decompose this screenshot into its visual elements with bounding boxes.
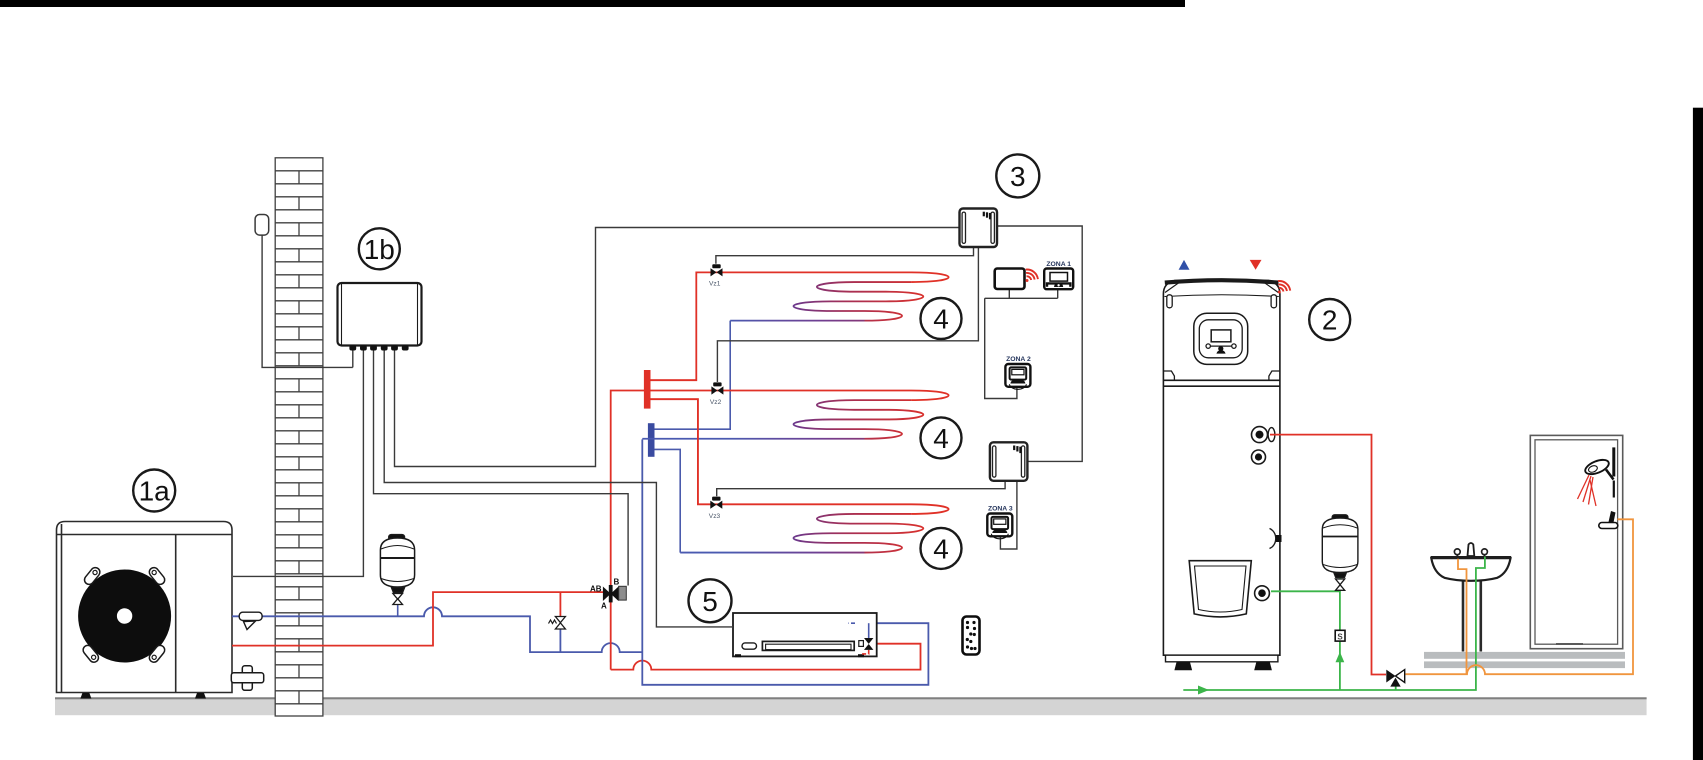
ZONA 2 thermostat <box>1005 364 1030 387</box>
zone valve Vz1 <box>711 264 723 276</box>
wire box3 to right loop down to receiver 2 <box>997 226 1082 461</box>
floor heating coil zone 2 serpentine <box>794 400 924 439</box>
wire 1b to fan coil <box>384 351 733 627</box>
red manifold stub to zone 1 <box>650 379 696 381</box>
remote control <box>963 617 980 655</box>
svg-text:Vz1: Vz1 <box>709 281 721 288</box>
shower mixer fitting <box>1599 523 1618 529</box>
shower head <box>1583 457 1611 477</box>
outdoor temperature sensor <box>255 215 269 236</box>
thermostatic mixing valve <box>1395 684 1397 690</box>
fan mounting bracket <box>147 566 166 587</box>
wire harness ZONA1 group <box>985 289 1058 398</box>
fan coil slot grille <box>762 641 854 650</box>
1b connection terminals <box>349 345 408 350</box>
fan mounting bracket <box>81 644 100 665</box>
svg-text:2: 2 <box>1322 305 1338 336</box>
top black bar <box>0 0 1185 7</box>
differential bypass valve blue stub <box>559 629 561 653</box>
zone valve Vz3 <box>710 497 722 509</box>
brick wall <box>275 158 323 716</box>
wireless control unit 3 <box>960 209 998 248</box>
green branch to tank <box>1271 591 1340 690</box>
wire receiver2 to zone valve Vz3 <box>717 481 1005 497</box>
svg-text:Vz2: Vz2 <box>710 399 722 406</box>
tank handhole flange <box>1189 561 1251 617</box>
blue riser from manifold down to fan-coil return <box>642 439 928 684</box>
svg-text:1a: 1a <box>139 476 171 507</box>
label circle 2 <box>1309 299 1350 340</box>
zone valve Vz2 <box>711 382 723 394</box>
wire receiver2 to ZONA3 <box>1000 481 1017 550</box>
orange branch to sink <box>1458 559 1467 675</box>
label circle 4 <box>921 298 962 339</box>
3-way diverter valve AB/A/B <box>603 585 619 602</box>
DHW heat pump tank body <box>1163 280 1280 655</box>
hot water red pipe from tank <box>1270 435 1386 675</box>
floor heating coil zone 1 serpentine <box>794 282 924 321</box>
fan coil corner feet <box>735 654 741 657</box>
wifi tablet display <box>995 269 1025 290</box>
tank wifi arcs <box>1278 291 1281 294</box>
wire 1b to outdoor unit <box>233 351 363 577</box>
blue return manifold <box>648 423 655 457</box>
ZONA 1 thermostat <box>1044 269 1073 290</box>
outdoor unit fan <box>78 570 171 663</box>
mixed water orange pipe <box>1406 519 1634 674</box>
svg-text:S: S <box>1337 632 1343 641</box>
red manifold stub to zone 3 <box>650 399 698 504</box>
cold water green main <box>1183 557 1485 691</box>
svg-text:4: 4 <box>933 533 949 564</box>
indoor unit 1b <box>338 283 422 346</box>
red down-triangle indicator <box>1250 260 1262 270</box>
svg-text:ZONA 1: ZONA 1 <box>1046 261 1071 268</box>
tank cold inlet port <box>1255 586 1270 601</box>
label circle 5 <box>689 579 732 622</box>
red pipe to fan-coil (supply) <box>611 644 921 670</box>
fan coil internal valve <box>868 623 870 638</box>
svg-text:4: 4 <box>933 423 949 454</box>
svg-text:AB: AB <box>590 585 602 594</box>
differential bypass valve symbol <box>555 617 565 630</box>
sink taps <box>1454 549 1460 555</box>
label circle 1b <box>359 228 400 269</box>
shutoff valve on blue pipe <box>239 612 262 629</box>
svg-text:ZONA 2: ZONA 2 <box>1006 356 1031 363</box>
svg-text:5: 5 <box>702 586 718 617</box>
sensor S box <box>1335 630 1345 641</box>
fan coil unit box <box>733 613 877 656</box>
floor (ground slab) <box>55 697 1647 715</box>
bathroom tray bar lower <box>1424 661 1625 668</box>
tank side sensor pocket <box>1270 529 1276 549</box>
shower enclosure <box>1530 435 1622 648</box>
blue manifold stub from zone 3 <box>654 449 680 552</box>
label circle 4 <box>921 417 962 458</box>
svg-text:B: B <box>614 578 620 587</box>
differential bypass valve red stub <box>559 592 561 617</box>
floor heating coil zone 1 return (blue-purple) <box>730 320 864 322</box>
red supply manifold <box>644 370 651 409</box>
fan mounting bracket <box>147 644 166 665</box>
floor heating coil zone 2 return (blue-purple) <box>642 438 864 440</box>
svg-text:3: 3 <box>1010 161 1026 192</box>
wire 1b to 3-way valve actuator <box>374 351 629 586</box>
tank control panel <box>1194 313 1248 364</box>
label circle 1a <box>133 470 175 512</box>
label circle 3 <box>996 154 1039 197</box>
heating expansion vessel <box>380 535 414 593</box>
right black bar <box>1693 108 1703 760</box>
tank base and feet <box>1166 655 1278 662</box>
DHW expansion vessel <box>1322 515 1358 578</box>
shower rail <box>1612 447 1615 476</box>
red riser to heating manifold and 3-way valve <box>611 391 645 670</box>
cold water flow arrow <box>1198 686 1209 695</box>
sensor wire junction at 1b <box>352 351 354 368</box>
floor heating coil zone 3 serpentine <box>794 514 924 553</box>
wire box3 to zone valve Vz2 <box>717 247 978 382</box>
blue up-triangle indicator <box>1179 260 1190 270</box>
floor heating coil zone 1 supply (red) <box>650 272 948 380</box>
shower spray (red) <box>1578 475 1597 506</box>
fan coil oval vent <box>742 643 757 649</box>
svg-text:4: 4 <box>933 304 949 335</box>
sink basin <box>1431 558 1510 581</box>
vessel isolation valve <box>397 593 399 616</box>
wire 1b to control box 3 <box>395 228 960 467</box>
tank hot outlet port <box>1252 427 1268 443</box>
green flow arrow up <box>1336 652 1345 662</box>
blue manifold stub from zone 1 <box>654 321 730 430</box>
red supply pipe from outdoor unit <box>232 592 604 646</box>
svg-text:Vz3: Vz3 <box>709 513 721 520</box>
remote control buttons <box>966 621 977 650</box>
sensor wire <box>262 235 353 367</box>
svg-text:ZONA 3: ZONA 3 <box>988 506 1013 513</box>
blue return pipe from outdoor unit <box>232 607 642 652</box>
bathroom tray bar upper <box>1424 652 1625 659</box>
wireless receiver zone 3 <box>990 442 1028 481</box>
tablet wifi arcs <box>1026 279 1029 282</box>
outdoor unit feet <box>80 693 91 699</box>
label circle 4 <box>921 528 962 569</box>
floor heating coil zone 3 supply (red) <box>650 399 948 514</box>
floor heating coil zone 2 supply (red) <box>650 391 948 401</box>
fan mounting bracket <box>83 566 102 587</box>
service cross fitting on outdoor unit <box>231 666 263 691</box>
outdoor heat pump unit 1a <box>57 522 233 693</box>
sink pedestal <box>1462 579 1465 652</box>
ZONA 3 thermostat <box>987 514 1012 537</box>
DHW vessel valve <box>1339 578 1341 591</box>
sink faucet <box>1468 543 1475 556</box>
svg-text:1b: 1b <box>364 234 395 265</box>
floor heating coil zone 3 return (blue-purple) <box>680 552 864 554</box>
svg-text:A: A <box>601 602 607 611</box>
tank secondary port <box>1252 450 1266 464</box>
wire box3 to zone valve Vz1 <box>716 247 974 264</box>
